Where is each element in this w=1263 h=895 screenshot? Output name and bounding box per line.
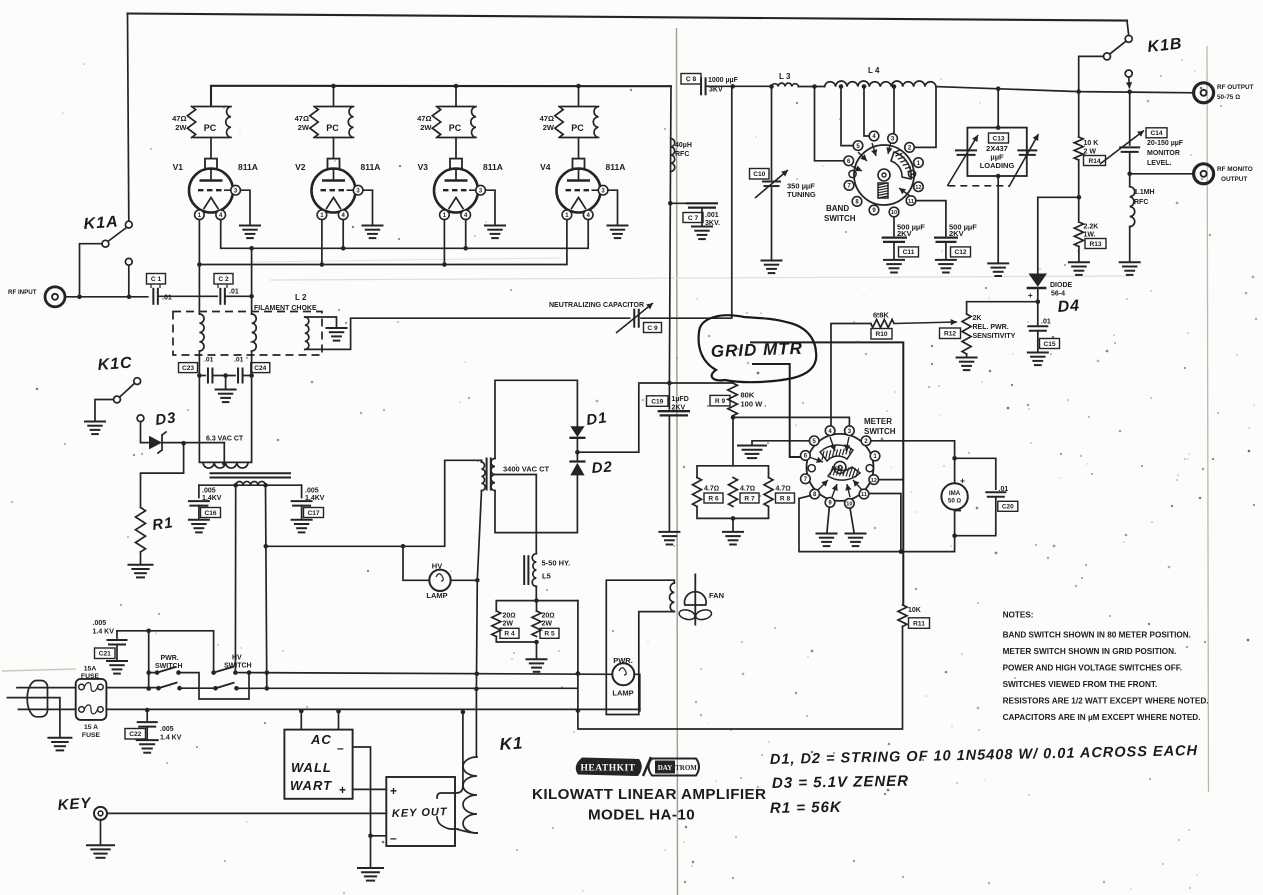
svg-text:10: 10 (891, 210, 897, 216)
svg-text:V1: V1 (173, 162, 184, 172)
svg-text:RFC: RFC (1134, 199, 1148, 206)
capacitor C20 .01 (985, 491, 1006, 493)
capacitor C19 feedthrough (668, 383, 670, 409)
switch PWR lower pole (156, 686, 161, 691)
pin 3 V3 (469, 189, 476, 191)
potentiometer R12 2K REL PWR SENSITIVITY (962, 314, 971, 354)
svg-text:OUTPUT: OUTPUT (1221, 176, 1247, 183)
svg-text:+: + (390, 784, 397, 798)
wire AC neutral line (106, 708, 639, 710)
resistor R1 (136, 508, 146, 553)
svg-text:NOTES:: NOTES: (1003, 611, 1034, 620)
wire secondary top to D1 (495, 380, 577, 458)
wire filament bus A (pin4s) (221, 220, 589, 249)
inductor L2 winding B (251, 296, 253, 314)
svg-text:47Ω: 47Ω (172, 114, 186, 123)
meter 1MA 50ohm (941, 483, 967, 509)
svg-text:.005: .005 (93, 620, 107, 627)
svg-text:2W: 2W (420, 123, 432, 132)
svg-text:D1: D1 (585, 409, 608, 429)
band switch pin 3 (888, 134, 898, 144)
ground C23/C24 (215, 389, 237, 391)
diode D1 (570, 426, 584, 437)
meter switch pin 7 (801, 474, 811, 484)
svg-text:1.4KV: 1.4KV (305, 495, 325, 502)
svg-text:R 7: R 7 (744, 495, 755, 502)
node plate tap V4 (576, 84, 581, 89)
band switch pin 6 (844, 156, 854, 166)
transformer HV secondary 3400 VAC CT (491, 458, 495, 490)
svg-text:R 4: R 4 (504, 631, 515, 638)
svg-text:V3: V3 (418, 162, 429, 172)
wire pin9 to ground (827, 507, 829, 532)
svg-text:15A: 15A (84, 666, 97, 673)
svg-text:FUSE: FUSE (81, 673, 100, 680)
svg-text:R13: R13 (1089, 241, 1101, 248)
capacitor C24 .01 (237, 368, 239, 384)
svg-text:12: 12 (915, 185, 921, 191)
svg-text:C23: C23 (182, 365, 194, 372)
svg-text:LEVEL.: LEVEL. (1147, 160, 1172, 167)
svg-text:2K: 2K (973, 315, 982, 322)
wire grid meter lower to pin6 (pen) (752, 364, 801, 457)
wire switched AC line (237, 687, 577, 689)
resistor R11 10K (898, 605, 907, 627)
capacitor C11 500uuF 2KV (893, 217, 895, 236)
svg-text:FUSE: FUSE (82, 732, 101, 739)
svg-text:SWITCH: SWITCH (824, 214, 856, 223)
wire plate feed V1 (210, 86, 212, 106)
meter switch pin 8 (810, 489, 820, 499)
svg-text:C 2: C 2 (218, 276, 229, 283)
svg-text:811A: 811A (361, 162, 381, 172)
svg-text:1µFD: 1µFD (672, 396, 689, 403)
parasitic choke PC / 47ohm V3 stage (439, 106, 475, 108)
svg-text:R12: R12 (944, 331, 956, 338)
svg-text:R14: R14 (1088, 158, 1100, 165)
wire primary right to AC line (266, 485, 267, 688)
contact to D3 (137, 415, 144, 422)
svg-text:.01: .01 (204, 357, 214, 364)
logo DAYSTROM (649, 759, 700, 776)
svg-text:12: 12 (871, 478, 877, 484)
capacitor C12 500uuF 2KV (916, 201, 946, 236)
resistor R5 20ohm 2W (532, 611, 541, 637)
wire KEY to softkey (107, 812, 386, 814)
wire R11 return loop (578, 601, 903, 729)
capacitor C16 .005 1.4KV (198, 485, 200, 497)
svg-text:1.1MH: 1.1MH (1134, 189, 1155, 196)
lamp PWR (612, 663, 634, 685)
svg-text:10K: 10K (908, 607, 921, 614)
pin 3 V2 (347, 189, 354, 191)
pin 3 V1 (224, 189, 231, 191)
capacitor C1 .01 (152, 288, 154, 305)
wire R9 to R6R7R8 (732, 417, 734, 465)
svg-text:PC: PC (571, 123, 584, 133)
wire PC to top cap V4 (578, 138, 580, 159)
wire C8 to tank (706, 85, 772, 87)
ground V1 grid (239, 225, 261, 227)
tube V3 811A (450, 159, 462, 170)
wire wall wart plus (353, 788, 387, 790)
svg-text:3400 VAC CT: 3400 VAC CT (503, 465, 550, 474)
top border wire (128, 14, 1128, 21)
svg-text:IMA: IMA (949, 490, 961, 497)
wire HV lamp feed (403, 546, 429, 580)
svg-text:PWR.: PWR. (161, 655, 179, 662)
band switch pin 9 (869, 205, 879, 215)
svg-text:C13: C13 (992, 135, 1004, 142)
svg-text:1.4 KV: 1.4 KV (93, 629, 115, 636)
svg-text:.001: .001 (705, 212, 719, 219)
AC wall wart box (284, 730, 352, 799)
svg-text:D3: D3 (154, 409, 177, 429)
svg-text:11: 11 (861, 492, 867, 498)
svg-text:2W: 2W (298, 123, 310, 132)
wire L2 winding C top to ground (305, 317, 337, 327)
parasitic choke PC / 47ohm V1 stage (194, 106, 230, 108)
svg-text:RF MONITO: RF MONITO (1217, 166, 1253, 173)
svg-text:C 8: C 8 (686, 76, 697, 83)
svg-text:RESISTORS ARE 1/2 WATT EXCEPT: RESISTORS ARE 1/2 WATT EXCEPT WHERE NOTE… (1003, 697, 1209, 706)
svg-text:.01: .01 (234, 357, 244, 364)
wire secondary CT to L5 (495, 475, 536, 554)
svg-text:HV: HV (432, 562, 442, 571)
wire PC to top cap V2 (333, 138, 335, 159)
capacitor C13 2X437uuF LOADING (997, 89, 999, 128)
annotation GRID MTR bubble (699, 315, 817, 382)
svg-text:CAPACITORS ARE IN µM EXCEPT WH: CAPACITORS ARE IN µM EXCEPT WHERE NOTED. (1003, 713, 1201, 722)
wire to HV lower pole (180, 687, 216, 689)
tube V4 811A (573, 159, 585, 170)
svg-text:WALL: WALL (291, 760, 332, 775)
svg-text:.01: .01 (1041, 319, 1051, 326)
svg-text:K1B: K1B (1147, 35, 1184, 56)
wire bus A drop to C2 line (251, 248, 253, 296)
wire CT tap (223, 443, 225, 464)
svg-text:6.3 VAC CT: 6.3 VAC CT (206, 436, 244, 443)
band switch blank contacts (849, 170, 856, 177)
capacitor C15 .01 (1027, 325, 1048, 327)
pin 1 V4 (562, 210, 572, 220)
wire primary left to HV switch (234, 485, 236, 672)
wire L4 tap to pin5 (841, 87, 853, 146)
ground K1C (84, 421, 106, 423)
svg-text:.005: .005 (160, 726, 174, 733)
svg-text:11: 11 (908, 199, 914, 205)
svg-text:TUNING: TUNING (787, 190, 816, 199)
connector AC plug (27, 681, 47, 717)
svg-text:2W: 2W (175, 123, 187, 132)
wire RF input line (65, 296, 148, 298)
svg-text:D4: D4 (1057, 297, 1081, 316)
resistor R7 (729, 478, 738, 507)
svg-text:3KV: 3KV (709, 87, 723, 94)
wire plate bus (211, 86, 671, 106)
meter switch pin 12 (869, 475, 879, 485)
svg-text:WART: WART (290, 778, 332, 793)
svg-text:LOADING: LOADING (980, 161, 1015, 170)
svg-text:DAY: DAY (658, 764, 673, 772)
connector RF MONITOR OUTPUT (1130, 173, 1194, 175)
wire pin5 to ground (752, 441, 809, 445)
ground V4 grid (607, 225, 629, 227)
svg-text:811A: 811A (483, 162, 503, 172)
fan motor winding (606, 580, 674, 714)
inductor L5 5-50 HY (532, 554, 536, 587)
svg-text:40µH: 40µH (675, 142, 692, 149)
svg-text:C 9: C 9 (647, 325, 658, 332)
wire wall wart minus (353, 747, 371, 867)
svg-text:56-4: 56-4 (1051, 291, 1065, 298)
wire D1 to junction (576, 438, 578, 462)
inductor L2 winding A (198, 296, 200, 314)
pin 1 V3 (440, 210, 450, 220)
relay coil K1 (475, 689, 477, 757)
svg-text:50-75 Ω: 50-75 Ω (1217, 94, 1240, 101)
wire pin12 to grid meter line (879, 479, 904, 481)
svg-text:C11: C11 (903, 249, 915, 256)
svg-text:METER SWITCH SHOWN IN GRID POS: METER SWITCH SHOWN IN GRID POSITION. (1003, 647, 1177, 656)
meter switch pin 11 (859, 489, 869, 499)
wire KEY OUT relay return (hook) (437, 817, 458, 829)
svg-text:47Ω: 47Ω (417, 114, 431, 123)
capacitor C7 .001 3KV (670, 202, 686, 204)
wire grid meter upper (pen) (750, 342, 903, 605)
svg-text:L 3: L 3 (779, 72, 791, 81)
wire R7 to ground (732, 518, 734, 530)
svg-text:L5: L5 (542, 572, 551, 581)
svg-text:HV: HV (232, 655, 242, 662)
svg-text:C10: C10 (753, 171, 765, 178)
fuse block 15A (76, 679, 107, 720)
svg-text:PWR.: PWR. (613, 656, 633, 665)
capacitor C22 .005 1.4KV (146, 710, 148, 720)
wire R10 to meter switch pin4 (831, 324, 871, 426)
diode D3 zener (149, 436, 162, 450)
svg-text:R11: R11 (913, 620, 925, 627)
capacitor C17 .005 1.4KV (301, 485, 303, 497)
svg-text:C21: C21 (99, 651, 111, 658)
svg-text:80K: 80K (741, 391, 755, 400)
wire pin2 to meter plus (871, 441, 955, 483)
svg-text:3KV.: 3KV. (705, 220, 720, 227)
band switch pin 12 (914, 182, 924, 192)
svg-text:KEY OUT: KEY OUT (392, 806, 448, 820)
svg-text:10 K: 10 K (1084, 140, 1099, 147)
meter switch pin 9 (825, 498, 835, 508)
wire R9 bottom to meter switch pin3 (733, 416, 850, 426)
wire junction to C20 top (955, 458, 996, 489)
pin 3 V4 (592, 189, 599, 191)
wire C21 top line (117, 631, 214, 673)
meter switch rotor (820, 445, 853, 461)
wire B+ junction to C19/R9 (577, 383, 732, 452)
wire R10 to R12 wiper (894, 322, 957, 324)
svg-text:–: – (337, 741, 344, 755)
ground R1 (128, 564, 154, 566)
svg-text:BAND SWITCH SHOWN IN 80 METER: BAND SWITCH SHOWN IN 80 METER POSITION. (1003, 631, 1191, 640)
wire pin10 to ground (850, 508, 854, 532)
svg-text:2 W: 2 W (1084, 149, 1097, 156)
svg-text:6.8K: 6.8K (873, 311, 889, 320)
svg-text:C19: C19 (651, 398, 663, 405)
resistor R13 2.2K 1W (1074, 222, 1083, 247)
wire C1 to C2 (158, 295, 217, 297)
svg-text:SWITCH: SWITCH (224, 663, 252, 670)
svg-text:+: + (1028, 291, 1033, 300)
svg-text:C20: C20 (1002, 504, 1014, 511)
svg-text:R 5: R 5 (544, 631, 555, 638)
wire L4 tap to pin3 (893, 87, 894, 134)
page fold line (677, 28, 678, 895)
svg-text:K1: K1 (499, 733, 524, 754)
meter switch pin 5 (809, 436, 819, 446)
svg-text:+: + (339, 783, 346, 797)
svg-text:10: 10 (846, 502, 852, 508)
fuse 15A bottom (79, 707, 85, 713)
wire grid pin3 to ground V1 (240, 190, 250, 224)
inductor L1 1MH RFC (1129, 174, 1131, 187)
svg-text:K1A: K1A (83, 214, 119, 233)
transformer primary (199, 484, 302, 486)
svg-text:LAMP: LAMP (612, 689, 633, 698)
wire PC to top cap V3 (455, 138, 457, 159)
resistor R14 10K 2W (1078, 92, 1080, 137)
capacitor C10 350uuF TUNING (771, 87, 773, 180)
inductor L3 (772, 83, 799, 86)
resistor R9 80K 100W (728, 383, 738, 416)
capacitor C8 1000uuF 3KV (700, 77, 702, 95)
wire plate feed V3 (455, 86, 457, 106)
svg-text:2KV: 2KV (949, 229, 964, 238)
connector RF INPUT (45, 287, 65, 307)
band switch pin 1 (914, 158, 924, 168)
svg-text:R10: R10 (875, 331, 887, 338)
capacitor C14 20-150uuF variable (1129, 92, 1131, 145)
svg-text:RF OUTPUT: RF OUTPUT (1217, 84, 1254, 91)
band switch pin 2 (905, 143, 915, 153)
meter switch pin 6 (801, 451, 811, 461)
right page edge (1207, 46, 1209, 792)
svg-text:C12: C12 (954, 249, 966, 256)
fuse 15A top (79, 684, 85, 690)
svg-text:PC: PC (326, 123, 339, 133)
logo HEATHKIT (576, 758, 642, 777)
svg-text:R 9: R 9 (715, 398, 726, 405)
relay contact K1B (1127, 21, 1129, 36)
box KEY OUT softkey (386, 777, 455, 846)
svg-text:C 7: C 7 (688, 215, 699, 222)
svg-text:100 W .: 100 W . (741, 400, 767, 409)
ground V2 grid (362, 225, 384, 227)
wire C9 to plate tank (641, 86, 732, 318)
wire HV lamp to primary bottom (451, 579, 478, 581)
svg-text:AC: AC (310, 732, 332, 747)
svg-text:C 1: C 1 (151, 276, 162, 283)
svg-text:.005: .005 (305, 488, 319, 495)
svg-text:RF INPUT: RF INPUT (8, 289, 37, 296)
svg-text:2W: 2W (543, 123, 555, 132)
svg-text:4.7Ω: 4.7Ω (740, 486, 755, 493)
wire AC neutral prong (18, 708, 75, 710)
svg-text:811A: 811A (238, 162, 258, 172)
transformer HV primary (481, 460, 483, 462)
switch PWR upper pole (149, 672, 157, 674)
capacitor C23 .01 (197, 373, 202, 378)
svg-text:.01: .01 (229, 289, 239, 296)
tube V2 811A (328, 159, 340, 170)
wire L4 tap to pin4 (864, 87, 869, 137)
svg-text:20-150 µµF: 20-150 µµF (1147, 140, 1184, 147)
svg-text:PC: PC (204, 123, 217, 133)
svg-text:C15: C15 (1043, 341, 1055, 348)
wire KEY jack ground (100, 820, 102, 844)
wire L3-L4 (799, 86, 825, 88)
wire AC hot prong (17, 687, 76, 689)
ground wall wart minus (357, 867, 384, 869)
svg-text:2W: 2W (503, 621, 514, 628)
svg-text:MODEL HA-10: MODEL HA-10 (588, 807, 695, 824)
wire windings to C23 C24 (199, 351, 251, 376)
transformer core (210, 472, 292, 474)
meter switch pin 3 (845, 426, 855, 436)
svg-text:–: – (390, 831, 397, 845)
meter switch pin 1 (870, 451, 880, 461)
connector RF OUTPUT (1194, 83, 1214, 103)
inductor L2 filament choke dashed box (173, 312, 322, 356)
diode D2 (569, 460, 585, 462)
lamp HV (429, 570, 450, 591)
wire meter minus / C20 bottom bus (799, 497, 996, 552)
svg-text:1000 µµF: 1000 µµF (708, 77, 739, 84)
relay contact K1A (128, 14, 129, 221)
wire neutralizing feedback from L2 (305, 318, 630, 349)
meter switch blank contacts (808, 465, 815, 472)
svg-text:R1: R1 (151, 514, 174, 534)
pin 4 V2 (338, 210, 348, 220)
svg-text:SWITCH: SWITCH (155, 663, 183, 670)
svg-text:4.7Ω: 4.7Ω (776, 486, 791, 493)
svg-text:L 4: L 4 (868, 66, 880, 75)
meter switch pin 10 (845, 499, 855, 509)
wire filament bus B (pin1s) (199, 220, 567, 265)
wire grid pin3 to ground V2 (363, 190, 373, 224)
svg-text:TROM: TROM (675, 764, 697, 772)
wire L5 to R4R5 box (535, 586, 537, 600)
svg-text:POWER AND HIGH VOLTAGE SWITCHE: POWER AND HIGH VOLTAGE SWITCHES OFF. (1003, 664, 1183, 673)
parasitic choke PC / 47ohm V2 stage (316, 106, 352, 108)
svg-text:47Ω: 47Ω (295, 114, 309, 123)
svg-text:20Ω: 20Ω (503, 613, 516, 620)
svg-text:D2: D2 (591, 459, 613, 477)
band switch pin 11 (906, 196, 916, 206)
svg-text:R1 = 56K: R1 = 56K (770, 799, 842, 817)
wire L4 end to pin2 (914, 87, 936, 148)
svg-text:R 8: R 8 (780, 495, 791, 502)
wire to R12 pot (967, 302, 1038, 314)
wire grid pin3 to ground V3 (485, 190, 495, 224)
svg-text:2.2K: 2.2K (1084, 224, 1099, 231)
wire pin11 to bus (869, 494, 901, 552)
wire tank output (936, 87, 1194, 93)
svg-text:DIODE: DIODE (1050, 282, 1073, 289)
svg-text:MONITOR: MONITOR (1147, 150, 1180, 157)
meter switch pin 4 (825, 426, 835, 436)
wire D2 to secondary bottom (495, 475, 577, 532)
wire R4R5 to ground (536, 642, 538, 658)
